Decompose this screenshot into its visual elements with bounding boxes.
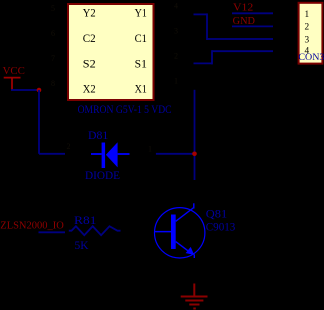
- svg-text:C9013: C9013: [206, 221, 236, 233]
- svg-text:R81: R81: [74, 215, 97, 227]
- svg-text:C1: C1: [135, 33, 147, 45]
- svg-text:4: 4: [174, 2, 178, 11]
- svg-text:Y2: Y2: [83, 8, 96, 20]
- svg-text:1: 1: [305, 10, 310, 20]
- transistor Q81 symbol: [155, 203, 205, 258]
- wire relay pin2 S1 horizontal: [194, 62, 213, 64]
- wire to CON3 pin 4: [212, 50, 273, 52]
- wire relay pin4 Y1 jog horizontal: [194, 13, 208, 15]
- svg-text:Y1: Y1: [135, 8, 147, 20]
- svg-text:C2: C2: [83, 33, 96, 45]
- svg-text:S1: S1: [135, 58, 147, 70]
- svg-text:3: 3: [174, 27, 178, 36]
- power port VCC: [3, 66, 25, 90]
- svg-text:6: 6: [51, 29, 55, 38]
- svg-text:3: 3: [305, 35, 310, 45]
- svg-text:8: 8: [51, 79, 55, 88]
- svg-text:S2: S2: [83, 58, 96, 70]
- wire GND to CON3 pin 2: [232, 25, 273, 27]
- wire to diode cathode pin: [39, 153, 65, 155]
- svg-text:Q81: Q81: [206, 208, 228, 220]
- svg-text:2: 2: [174, 52, 178, 61]
- resistor R81 zigzag: [69, 226, 121, 235]
- svg-text:X2: X2: [83, 84, 96, 96]
- svg-text:VCC: VCC: [3, 66, 25, 77]
- relay OMRON G5V-1 5VDC body: [68, 4, 154, 100]
- svg-text:D81: D81: [88, 130, 108, 142]
- wire relay pin4 jog vertical: [206, 13, 208, 40]
- ground: [181, 284, 208, 309]
- diode D81 symbol: [91, 142, 130, 168]
- wire V12 to CON3 pin 1: [232, 12, 273, 14]
- svg-text:2: 2: [67, 142, 71, 151]
- svg-text:1: 1: [174, 77, 178, 86]
- connector CON3 body: [299, 3, 323, 64]
- wire to CON3 pin 3: [207, 38, 273, 40]
- svg-text:X1: X1: [135, 84, 147, 96]
- wire relay pin2 jog vertical: [211, 50, 213, 64]
- svg-text:5K: 5K: [75, 240, 90, 252]
- svg-text:DIODE: DIODE: [85, 170, 120, 182]
- wire relay X1 down to collector: [194, 90, 196, 180]
- svg-text:7: 7: [51, 54, 55, 63]
- wire net to resistor R81: [39, 231, 66, 233]
- svg-text:GND: GND: [233, 16, 255, 27]
- wire diode anode to junction: [156, 153, 195, 155]
- svg-text:ZLSN2000_IO: ZLSN2000_IO: [0, 220, 64, 231]
- svg-text:5: 5: [51, 4, 55, 13]
- svg-text:OMRON G5V-1 5 VDC: OMRON G5V-1 5 VDC: [78, 103, 172, 116]
- wire VCC to relay X2 pin: [11, 89, 39, 91]
- wire down to diode cathode: [38, 90, 40, 154]
- svg-text:1: 1: [148, 145, 152, 154]
- svg-text:V12: V12: [233, 2, 253, 13]
- svg-text:2: 2: [305, 23, 310, 33]
- junction at diode/X1/collector: [192, 152, 197, 157]
- svg-text:CON3: CON3: [298, 52, 324, 62]
- junction at VCC/X2: [37, 88, 42, 93]
